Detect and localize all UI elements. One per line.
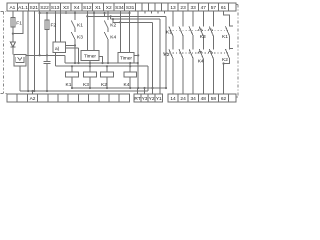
svg-text:23: 23 (180, 5, 186, 11)
svg-text:K1: K1 (66, 82, 72, 88)
contact K2 34 row2 (189, 49, 193, 59)
svg-text:X2: X2 (106, 5, 112, 11)
capacitor C1 (44, 55, 51, 91)
NC column 61-62 (224, 11, 230, 94)
linkage dashes row1 (170, 29, 229, 31)
relay coil K4 (124, 72, 137, 77)
svg-text:K1: K1 (222, 34, 228, 40)
node return Y2 cross (151, 87, 153, 89)
node bus88 K3 (89, 87, 91, 89)
wire X1 to timer1 (93, 11, 95, 50)
routing wire RT vertical (137, 11, 139, 88)
svg-text:47: 47 (201, 5, 207, 11)
stubs under empty top terminals (145, 11, 165, 14)
bottom terminal Y1 (155, 94, 162, 102)
bottom terminal 48 (198, 94, 208, 102)
wire S31 down to timer2 (129, 11, 131, 53)
wire F1 to diode (12, 27, 14, 42)
svg-text:A2: A2 (30, 96, 36, 102)
node return Y1 (143, 87, 145, 89)
bottom terminal RT (134, 94, 141, 102)
fuse F1 (11, 18, 15, 28)
top terminal X3 (61, 3, 72, 11)
coil K3 stub (89, 66, 91, 72)
NC contact K1 61 (225, 26, 233, 36)
top terminal 23 (178, 3, 188, 11)
top terminal S13 (50, 3, 61, 11)
wire S13 into a) (55, 11, 57, 42)
relay coil K1 (66, 72, 79, 77)
delayed contact K4 58 row2 (209, 49, 213, 59)
contact column 47-48 (202, 11, 204, 94)
wire timer2 bottom stub (129, 63, 131, 66)
wire RT stub (137, 88, 139, 94)
top terminal S34 (114, 3, 125, 11)
svg-text:A1.1: A1.1 (18, 5, 28, 11)
top terminal 57 (208, 3, 218, 11)
svg-text:Y1: Y1 (156, 96, 162, 102)
wire F2 to supply line (46, 30, 48, 56)
svg-text:61: 61 (221, 5, 227, 11)
top empty terminals (135, 3, 168, 11)
bottom empty terminal right (229, 94, 237, 102)
wire timer2 output (134, 54, 138, 56)
wire X3 stub (65, 11, 67, 14)
wire diode to power supply (12, 48, 14, 55)
linkage dashes row2 (163, 52, 228, 54)
top terminal S22 (39, 3, 50, 11)
svg-text:X4: X4 (74, 5, 80, 11)
svg-text:A1: A1 (9, 5, 15, 11)
coil K2 stub (106, 66, 108, 72)
svg-text:13: 13 (170, 5, 176, 11)
wire X5 into a) (60, 11, 62, 42)
node bus91 A2 (31, 90, 33, 92)
svg-text:X3: X3 (63, 5, 69, 11)
svg-text:57: 57 (211, 5, 217, 11)
svg-text:K4: K4 (124, 82, 130, 88)
node a out X3 col (74, 44, 76, 46)
wire S12 to timer1 (86, 11, 88, 50)
coil supply bus2 (56, 65, 149, 67)
contact K4 feedback (104, 32, 108, 40)
top terminal X4 (71, 3, 82, 11)
bottom terminals left group with A2 (7, 94, 129, 102)
svg-text:K3: K3 (83, 82, 89, 88)
contact K2 24 row2 (179, 49, 183, 59)
wire S21 pair down long (33, 11, 35, 91)
bottom terminal Y3 (141, 94, 148, 102)
wire A1.1 branch (13, 11, 23, 34)
svg-text:K4: K4 (110, 34, 116, 40)
relay coil K3 (84, 72, 97, 77)
svg-text:K3: K3 (200, 34, 206, 40)
node bus88 K2 (106, 87, 108, 89)
diode V1 (10, 42, 15, 47)
enclosure dash-dot left border (1, 5, 239, 97)
coil K1 stub (71, 66, 73, 72)
bottom terminal 58 (208, 94, 218, 102)
node X4 col lineA (74, 12, 76, 14)
node lineC branch (112, 18, 114, 20)
svg-text:Y2: Y2 (149, 96, 155, 102)
bottom terminal 62 (219, 94, 229, 102)
cross wire line A1 (40, 12, 130, 14)
branch to fuse F2 (46, 13, 48, 20)
wire X3 column with contacts (74, 11, 76, 63)
cross wire line A2 to NC column (87, 16, 166, 88)
wire A1 down (12, 11, 14, 18)
svg-text:K1: K1 (77, 22, 83, 28)
coil K4 stub (129, 66, 131, 72)
relay return bus (72, 87, 166, 89)
svg-text:K2: K2 (164, 52, 170, 58)
contact column 57-58 (212, 11, 214, 94)
node bus88 K4 (129, 87, 131, 89)
top terminal A1.1 (18, 3, 29, 11)
svg-text:S22: S22 (40, 5, 49, 11)
node S34 lineC (119, 21, 121, 23)
top terminal 33 (188, 3, 198, 11)
svg-text:24: 24 (180, 96, 186, 102)
top empty terminal right (229, 3, 237, 11)
svg-text:34: 34 (191, 96, 197, 102)
routing wire line B to Y1 (111, 16, 161, 94)
wire S21 down long (27, 11, 29, 91)
svg-text:Timer: Timer (84, 54, 96, 60)
top terminal S21 (28, 3, 39, 11)
svg-text:S31: S31 (126, 5, 135, 11)
node bus1 T2 out (137, 62, 139, 64)
svg-text:K4: K4 (198, 59, 204, 65)
top terminal X2 (103, 3, 114, 11)
svg-text:S34: S34 (115, 5, 124, 11)
contact column 33-34 (192, 11, 194, 94)
junction dots (12, 12, 225, 92)
contact K2 14 row2 (169, 49, 173, 59)
wire timer1 output (99, 57, 103, 64)
node lineB branch (110, 15, 112, 17)
svg-text:K2: K2 (101, 82, 107, 88)
top terminal A1 (7, 3, 18, 11)
node X1 stub lineA (93, 12, 95, 14)
wire a) output 1 (65, 44, 75, 46)
wire A2 up (32, 91, 34, 94)
node bus1 X1 col (107, 62, 109, 64)
ground return bus (20, 90, 148, 92)
node bus91 S21 (27, 90, 29, 92)
contact K1 13-14 (169, 27, 173, 37)
top terminal 13 (168, 3, 178, 11)
node supply cap (46, 54, 48, 56)
bottom terminal 34 (188, 94, 198, 102)
svg-text:14: 14 (170, 96, 176, 102)
node bus1 a out2 (77, 62, 79, 64)
wire psu bottom to return bus (19, 66, 21, 91)
top terminal 61 (219, 3, 229, 11)
node return NC end (165, 87, 167, 89)
node F1 out A1.1 (12, 33, 14, 35)
node F2 branch (46, 12, 48, 14)
node bus88 K1 (71, 87, 73, 89)
node return T2 (137, 87, 139, 89)
timer block T1 (81, 50, 99, 60)
supply line corner to bus (64, 55, 66, 63)
node bus2 K3 (89, 65, 91, 67)
contact column 23-24 (182, 11, 184, 94)
top terminal S12 (82, 3, 93, 11)
contact K3 feedback (71, 32, 75, 40)
wire S34 to timer2 (119, 11, 121, 53)
bottom terminal 14 (168, 94, 178, 102)
delayed contact K3 47-48 (199, 27, 203, 37)
node bus2 K2 (106, 65, 108, 67)
svg-text:S13: S13 (51, 5, 60, 11)
timer block T2 (118, 53, 134, 63)
top terminal X1 (93, 3, 104, 11)
relay coil K2 (101, 72, 114, 77)
bottom terminal Y2 (148, 94, 155, 102)
svg-text:33: 33 (191, 5, 197, 11)
node bus1 X3 col (74, 62, 76, 64)
delayed contact K4 48 row2 (199, 49, 203, 59)
node supply S22 (39, 54, 41, 56)
svg-text:K3: K3 (77, 34, 83, 40)
cross wire step (104, 13, 106, 16)
top terminal 47 (198, 3, 208, 11)
wire a) output 2 (65, 48, 78, 63)
wire bus2 link down (147, 66, 149, 91)
wire S22 down to supply node (39, 11, 41, 55)
node step lineA (103, 12, 105, 14)
svg-text:F1: F1 (16, 21, 22, 27)
contact K1 33-34 (189, 27, 193, 37)
node S31 lineA (128, 12, 130, 14)
power supply unit (14, 55, 26, 67)
svg-text:Timer: Timer (120, 56, 132, 62)
coil supply bus1 (65, 62, 138, 64)
svg-text:48: 48 (201, 96, 207, 102)
contact K2 feedback (104, 21, 108, 29)
node bus2 K4 (129, 65, 131, 67)
wire a) bottom to bus2 (55, 52, 57, 66)
node NC corner (222, 62, 224, 64)
svg-text:Y3: Y3 (142, 96, 148, 102)
wire Y1 stub (144, 88, 146, 94)
svg-text:K2: K2 (222, 57, 228, 63)
bottom terminal 24 (178, 94, 188, 102)
logic block a) (53, 42, 66, 52)
node bus1 T1 out (101, 62, 103, 64)
svg-text:K2: K2 (110, 22, 116, 28)
svg-text:RT: RT (134, 96, 140, 102)
svg-text:K1: K1 (166, 30, 172, 36)
supply output line (26, 54, 65, 56)
delayed contact K3 57-58 (209, 27, 213, 37)
svg-text:S21: S21 (30, 5, 39, 11)
NC contact K2 62 row2 (225, 49, 233, 59)
wire X1 column with contacts (107, 11, 109, 63)
svg-text:a): a) (55, 46, 60, 52)
node bus91 cap (46, 90, 48, 92)
contact column 13-14 (172, 11, 174, 94)
node S12 lineA2 (86, 15, 88, 17)
node bus91 S21b (33, 90, 35, 92)
svg-text:X1: X1 (95, 5, 101, 11)
svg-text:S12: S12 (83, 5, 92, 11)
svg-text:62: 62 (221, 96, 227, 102)
svg-text:F2: F2 (51, 23, 57, 29)
contact K1 feedback (71, 21, 75, 29)
wire timer1 bottom stub (89, 61, 91, 67)
enclosure dash-dot right border (236, 5, 238, 97)
fuse F2 (45, 20, 49, 30)
node bus2 K1 (71, 65, 73, 67)
routing wire line C to Y2 (113, 19, 153, 94)
node S22 fuse branch (39, 12, 41, 14)
svg-text:58: 58 (211, 96, 217, 102)
contact K1 23-24 (179, 27, 183, 37)
top terminal S31 (125, 3, 136, 11)
